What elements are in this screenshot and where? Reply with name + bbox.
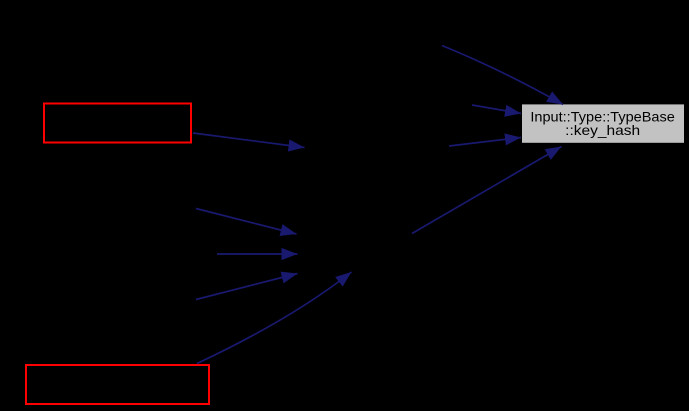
edge: hidden node to hidden node M (upper) [196, 209, 297, 235]
edge: hidden node to key_hash (short upper) [472, 105, 521, 114]
edge: hidden node to hidden node M (lower) [196, 274, 298, 300]
edge: hidden node to hidden node M (middle, horizontal) [217, 253, 298, 255]
edge: hidden top node to key_hash (top curve) [442, 46, 563, 105]
edge: hidden node to key_hash (short lower) [449, 138, 521, 147]
node: red caller box 2 (bottom-left) [26, 365, 209, 404]
edge: hidden node M to key_hash (long diagonal) [412, 147, 562, 234]
edge: red box 1 to hidden node A [193, 133, 305, 148]
node: red caller box 1 (top-left) [44, 104, 191, 143]
node: Input::Type::TypeBase::key_hash (gray box) [522, 104, 684, 142]
edge: red box 2 to hidden node M (curved) [197, 272, 352, 364]
svg-text:::key_hash: ::key_hash [565, 123, 640, 138]
